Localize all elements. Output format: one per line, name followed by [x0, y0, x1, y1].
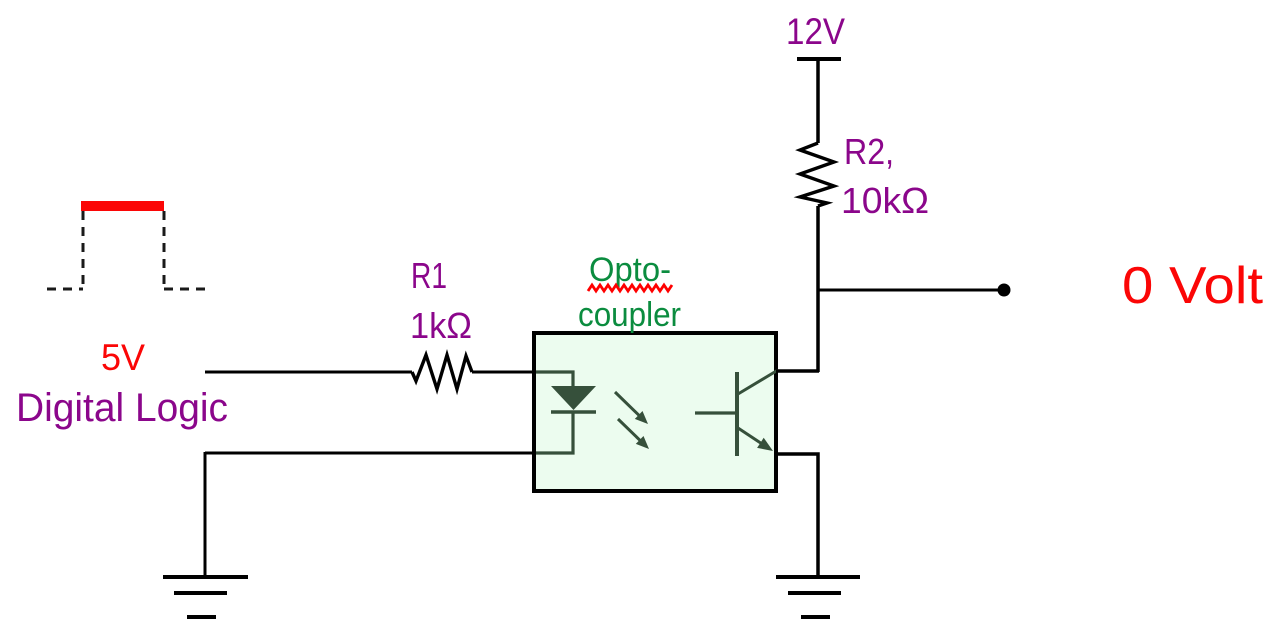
optocoupler U1 box	[534, 333, 776, 491]
svg-text:5V: 5V	[101, 337, 145, 378]
wire: R1 to optocoupler	[472, 371, 536, 374]
svg-text:Digital Logic: Digital Logic	[16, 386, 228, 430]
pulse waveform dashed baseline left	[47, 288, 83, 291]
12V supply terminal bar	[797, 57, 841, 61]
ground (output side) bar 1	[776, 575, 860, 579]
pulse waveform red high level	[81, 201, 164, 211]
wire: R2 down to collector junction	[816, 206, 820, 372]
ground (logic side) bar 3	[187, 615, 216, 619]
wire: logic signal to R1	[205, 371, 412, 374]
light emission arrow 2	[618, 419, 642, 442]
svg-text:R2,: R2,	[844, 131, 894, 172]
LED D1 cathode bar	[551, 410, 596, 414]
light emission arrow 1	[615, 392, 641, 417]
ground (logic side) bar 1	[163, 575, 248, 579]
svg-text:R1: R1	[411, 255, 447, 296]
svg-text:coupler: coupler	[578, 296, 681, 334]
svg-text:12V: 12V	[786, 11, 845, 52]
red squiggly underline	[588, 285, 672, 291]
svg-text:0 Volt: 0 Volt	[1122, 257, 1264, 315]
LED D1 triangle	[551, 386, 596, 410]
wire: logic ground return (bottom)	[205, 452, 536, 455]
wire: collector to vertical	[776, 369, 819, 373]
ground (logic side) bar 2	[174, 591, 227, 595]
phototransistor Q1 emitter diagonal	[738, 428, 763, 445]
pulse waveform dashed rising edge	[82, 211, 85, 290]
pulse waveform dashed falling edge	[163, 211, 166, 290]
svg-text:1kΩ: 1kΩ	[410, 305, 472, 346]
phototransistor Q1 base lead	[695, 411, 737, 414]
wire: down to logic ground	[204, 452, 207, 577]
resistor R2	[800, 143, 834, 206]
output node dot	[998, 284, 1011, 297]
phototransistor Q1 base bar	[735, 372, 739, 456]
svg-text:Opto-: Opto-	[589, 251, 671, 289]
ground (output side) bar 3	[801, 615, 830, 619]
resistor R1	[412, 355, 472, 389]
pulse waveform dashed baseline right	[164, 288, 206, 291]
LED D1 inside optocoupler: anode wire	[536, 372, 573, 387]
phototransistor Q1 collector diagonal	[738, 370, 778, 394]
phototransistor Q1 emitter arrowhead	[757, 438, 773, 451]
wire: output tap	[818, 289, 1001, 292]
LED D1 cathode wire	[536, 412, 573, 453]
ground (output side) bar 2	[788, 591, 841, 595]
svg-text:10kΩ: 10kΩ	[841, 180, 929, 221]
wire: 12V to R2	[816, 59, 820, 143]
wire: emitter to ground vertical	[776, 454, 818, 577]
